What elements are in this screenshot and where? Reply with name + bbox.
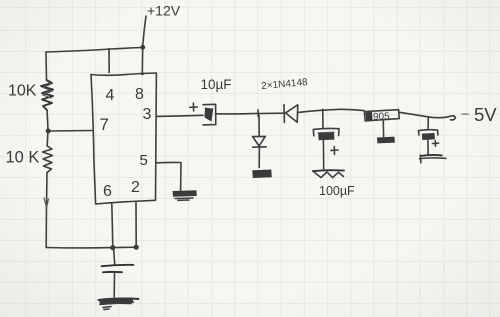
svg-text:10 K: 10 K — [6, 149, 40, 167]
svg-text:5: 5 — [140, 152, 148, 169]
svg-text:2: 2 — [131, 179, 140, 196]
svg-text:5V: 5V — [474, 104, 497, 125]
svg-text:+12V: +12V — [147, 3, 181, 19]
svg-text:7: 7 — [100, 115, 109, 134]
svg-text:4: 4 — [106, 87, 115, 104]
svg-text:10µF: 10µF — [201, 77, 232, 92]
svg-text:905: 905 — [373, 111, 390, 123]
svg-text:10K: 10K — [8, 83, 37, 100]
svg-text:–: – — [462, 106, 470, 121]
svg-text:6: 6 — [103, 183, 112, 200]
svg-text:100µF: 100µF — [319, 184, 355, 198]
svg-text:2×1N4148: 2×1N4148 — [261, 77, 309, 92]
svg-text:8: 8 — [135, 86, 144, 103]
svg-text:3: 3 — [143, 106, 152, 123]
